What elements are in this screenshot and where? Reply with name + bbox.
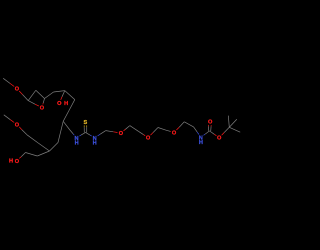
bond O8-v4: O8 - CH2 xyxy=(176,122,184,130)
bond C2-C3: chain C2-C3 xyxy=(45,92,54,99)
bond v2-v2b: CH2-CH2 xyxy=(130,126,139,132)
svg-text:H: H xyxy=(93,140,97,146)
bond Vg-C6: chain Vg-C6 xyxy=(58,121,63,142)
bond O1-A: O1 - C ring A xyxy=(19,91,28,101)
bond v3b-O8: CH2 - O8 xyxy=(166,130,171,131)
bond B-C2: ring bond B-C2 xyxy=(36,90,45,98)
bond C4-O3: C4 - hydroxyl O xyxy=(61,91,65,100)
svg-text:O: O xyxy=(146,136,151,142)
bond Cq-Mb: tBu methyl b xyxy=(229,127,240,132)
bond O4-Vd: O4 - C Vd xyxy=(19,127,27,135)
bond Cq-Mc: tBu methyl c xyxy=(229,119,237,127)
svg-text:O: O xyxy=(217,136,222,142)
svg-text:H: H xyxy=(9,159,13,165)
svg-text:O: O xyxy=(119,131,124,137)
bond v4-v5: CH2 - CH2 xyxy=(184,122,193,127)
bond Cq-Ma: tBu methyl a xyxy=(228,116,229,128)
bond O6-v2: O6 - CH2 xyxy=(124,126,130,131)
bond Vd-Vdb: chain Vd-CH2 xyxy=(27,135,38,143)
bond O5-Ve: phenolic O - Ve xyxy=(19,153,25,159)
bond Vf-Vg: chain Vf-Vg xyxy=(50,143,59,152)
bond Ccb-O10: carbamate C - ester O xyxy=(210,131,217,136)
bond Cth-S1: thiourea C=S xyxy=(84,125,87,132)
svg-text:O: O xyxy=(57,101,62,107)
svg-text:O: O xyxy=(208,120,213,126)
bond v3-v3b: CH2-CH2 xyxy=(158,128,166,131)
bond O2-A: ether O2 - A xyxy=(28,101,39,107)
bond A-B: ring bond A-B xyxy=(28,90,36,100)
svg-text:O: O xyxy=(15,123,20,129)
bond C4-C5: chain C4-C5 xyxy=(65,91,75,100)
svg-text:H: H xyxy=(64,101,68,107)
svg-text:S: S xyxy=(84,120,88,126)
bond Veb-Vf: chain CH2-Vf xyxy=(37,151,49,156)
bond Me1-O1: methyl - methoxy O1 xyxy=(3,78,14,86)
svg-text:O: O xyxy=(172,131,177,137)
svg-text:H: H xyxy=(199,140,203,146)
bond v2b-O7: CH2 - O7 xyxy=(139,132,145,136)
svg-text:O: O xyxy=(40,106,45,112)
bond O10-Cq: ester O - tBu C xyxy=(222,127,230,135)
bond C5b-C6: chain CH2-C6 xyxy=(63,111,69,122)
bond Cth-N2: thiourea C-N2 xyxy=(86,132,92,136)
bond C6b-N1: chain CH2 - N1 xyxy=(70,130,75,135)
bond N2-v1: N2 - CH2 xyxy=(98,131,106,136)
bond Vdb-Vf: chain CH2-Vf xyxy=(38,143,49,151)
bond Ccb-O9: carbamate C=O xyxy=(208,125,211,131)
bond v1-O6: CH2 - O6 xyxy=(106,131,118,133)
bond O7-v3: O7 - CH2 xyxy=(151,128,159,136)
bond C6-C6b: chain CH2-CH2 xyxy=(63,121,70,130)
bond C5-C5b: chain C5-CH2 xyxy=(69,100,75,111)
svg-text:O: O xyxy=(15,159,20,165)
bond C3-C4: chain C3-C4 xyxy=(54,91,65,92)
svg-text:H: H xyxy=(75,140,79,146)
svg-text:O: O xyxy=(15,87,20,93)
bond Ve-Veb: chain Ve-CH2 xyxy=(26,153,38,157)
bond v5-N3: CH2 - N3 xyxy=(194,127,199,135)
black background xyxy=(0,0,250,250)
bond Me2-O4: methyl - methoxy O4 xyxy=(4,115,14,123)
bond C2-O2: C2 - ether O2 xyxy=(43,99,45,105)
bond Cth-N1: thiourea C-N1 xyxy=(79,132,85,136)
bond N3-Ccb: N3 - carbamate C xyxy=(204,131,210,135)
